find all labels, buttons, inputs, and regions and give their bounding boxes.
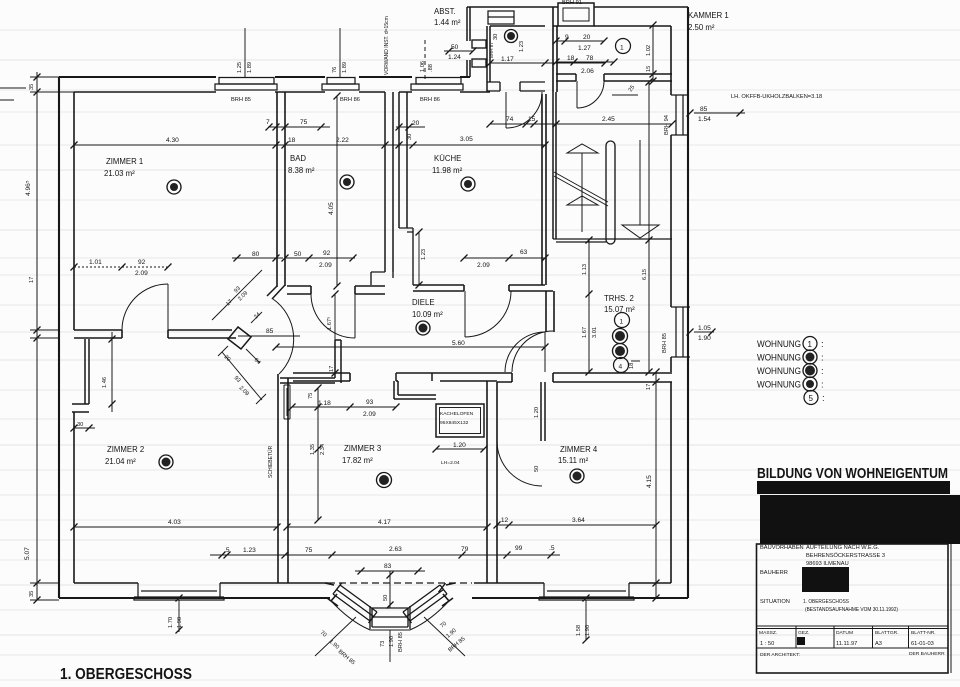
svg-text:1.70: 1.70 xyxy=(168,617,174,628)
wall BAD chamfer to corner xyxy=(267,285,285,299)
wall bottom outer right of bay xyxy=(472,597,688,599)
ticks WC y63 xyxy=(487,60,494,67)
svg-text:75: 75 xyxy=(300,119,308,126)
Z4 west stub wall xyxy=(541,382,545,441)
svg-text:5.60: 5.60 xyxy=(452,340,465,347)
diag dim 20 93 2.09 lower xyxy=(218,346,266,404)
dim 1.35 2.34 rot xyxy=(317,388,319,520)
window right BRH85 lower xyxy=(671,307,690,357)
svg-text:1.90: 1.90 xyxy=(585,625,591,636)
svg-text:93: 93 xyxy=(233,286,242,295)
corner door arc DIELE xyxy=(273,299,294,374)
dim 18 xyxy=(631,360,640,362)
svg-text:30: 30 xyxy=(77,422,83,428)
ticks Z4 window x586 xyxy=(583,595,590,602)
svg-text:BRH 86: BRH 86 xyxy=(340,97,360,103)
door Z4 arc xyxy=(497,441,542,486)
dim row 5 1.23 xyxy=(210,554,560,556)
dim 12 3.64 xyxy=(497,524,656,526)
dim 1.05/1.90 xyxy=(694,331,714,333)
svg-text:1.05: 1.05 xyxy=(698,325,711,332)
svg-text:KACHELOFEN: KACHELOFEN xyxy=(440,411,474,417)
wall top outer segments xyxy=(59,76,470,78)
svg-text:3.01: 3.01 xyxy=(592,327,598,338)
dim 18 78 2.06 xyxy=(556,61,614,63)
svg-text:1.23: 1.23 xyxy=(421,249,427,260)
door KUECHE arc xyxy=(465,291,511,337)
ticks right window dims xyxy=(687,329,694,336)
WC left wall xyxy=(487,26,490,92)
wall WC/KAMMER xyxy=(553,7,557,92)
dim 30 Z2 xyxy=(74,427,95,429)
svg-text:25: 25 xyxy=(628,85,637,94)
dim 1.23 KUECHE rot xyxy=(418,232,420,285)
svg-text:BRH 85: BRH 85 xyxy=(337,649,356,666)
svg-text:DATUM: DATUM xyxy=(836,630,853,636)
svg-text:11.98 m²: 11.98 m² xyxy=(432,166,463,175)
dim 85/1.54 right window xyxy=(694,112,745,114)
door Z1 arc xyxy=(122,284,168,330)
stair up arrowhead2 xyxy=(567,196,598,205)
extension top wall inner xyxy=(490,25,671,27)
WC scribble xyxy=(505,30,518,43)
window W1 ZIMMER1 sill xyxy=(219,78,274,85)
scribble DIELE xyxy=(416,321,430,335)
svg-text:BRH 85: BRH 85 xyxy=(398,632,404,652)
svg-text:LH=2.04: LH=2.04 xyxy=(441,460,460,466)
svg-text:1.90: 1.90 xyxy=(445,628,457,640)
scribble Z3 xyxy=(377,473,392,488)
door BAD arc xyxy=(311,294,355,338)
svg-text:1.90: 1.90 xyxy=(698,335,711,342)
svg-text:ZIMMER 3: ZIMMER 3 xyxy=(344,444,381,453)
svg-text:95X845X132: 95X845X132 xyxy=(440,420,469,426)
svg-text:1.20: 1.20 xyxy=(534,407,540,418)
window W3 frame xyxy=(411,84,463,90)
svg-text:2.45: 2.45 xyxy=(602,116,615,123)
dim 80 corner xyxy=(232,257,283,259)
svg-text:A3: A3 xyxy=(875,641,882,647)
ticks 5.60 y347 xyxy=(273,344,280,351)
svg-text::: : xyxy=(822,393,825,404)
svg-text:93: 93 xyxy=(366,399,374,406)
WC scribble fill xyxy=(507,32,515,40)
svg-text:15: 15 xyxy=(528,116,536,123)
svg-text:83: 83 xyxy=(384,563,392,570)
svg-text:BLATTGR.: BLATTGR. xyxy=(875,630,899,636)
svg-text:50: 50 xyxy=(383,595,389,601)
svg-text:17.82 m²: 17.82 m² xyxy=(342,456,373,465)
dim 4.17 xyxy=(287,526,487,528)
wall Z2 top stub xyxy=(72,339,89,412)
wall BAD bottom xyxy=(287,286,385,294)
ticks bay 50 x390 xyxy=(387,572,394,579)
vorwand bottom jog xyxy=(371,228,413,285)
svg-text:1. OBERGESCHOSS: 1. OBERGESCHOSS xyxy=(803,599,849,605)
KACHELOFEN dim 1.20 xyxy=(436,448,484,450)
svg-text:4: 4 xyxy=(619,364,623,371)
svg-text:1.01: 1.01 xyxy=(89,259,102,266)
stair cut line xyxy=(554,172,608,206)
svg-text:2.09: 2.09 xyxy=(477,262,490,269)
svg-text:35: 35 xyxy=(29,591,35,597)
dim 4.05 BAD rot xyxy=(336,96,338,286)
stair down arrowhead xyxy=(622,225,659,238)
svg-text:BAD: BAD xyxy=(290,154,306,163)
svg-text:70: 70 xyxy=(439,621,448,630)
bay dashed line xyxy=(328,582,472,584)
svg-text:1.23: 1.23 xyxy=(519,41,525,52)
wall bottom inner right of bay xyxy=(474,582,671,584)
svg-text:4.30: 4.30 xyxy=(166,137,179,144)
redaction bauherr xyxy=(802,567,849,592)
ticks Z2 window x179 xyxy=(176,595,183,602)
svg-text:1.54: 1.54 xyxy=(698,116,711,123)
svg-text:BRH 85: BRH 85 xyxy=(231,97,251,103)
svg-text:TRHS. 2: TRHS. 2 xyxy=(604,294,634,303)
svg-text:1 : 50: 1 : 50 xyxy=(760,641,774,647)
stair down line xyxy=(639,140,641,225)
svg-text:BAUHERR: BAUHERR xyxy=(760,570,788,576)
ticks KAMMER y41 xyxy=(553,38,560,45)
window W3 KUECHE sill xyxy=(416,78,461,85)
ticks 4.05 x337 xyxy=(334,93,341,100)
svg-text:1.23: 1.23 xyxy=(243,547,256,554)
placeholder2 xyxy=(60,337,960,684)
dim 5.60 DIELE xyxy=(276,346,545,348)
svg-text:WOHNUNG: WOHNUNG xyxy=(757,339,801,350)
table outer border xyxy=(757,544,949,673)
TRHS scribble 3 xyxy=(613,344,628,359)
svg-text:1.17: 1.17 xyxy=(501,56,514,63)
svg-text:61-01-03: 61-01-03 xyxy=(911,641,934,647)
svg-text:ZIMMER 2: ZIMMER 2 xyxy=(107,445,144,454)
svg-text:1.46: 1.46 xyxy=(102,377,108,388)
window W1 frame xyxy=(215,84,277,90)
WC niche box xyxy=(488,11,514,24)
ticks x656 right xyxy=(653,369,660,376)
svg-text:3.05: 3.05 xyxy=(460,136,473,143)
bay left wall wedge xyxy=(325,583,338,606)
ticks BAD door y258 xyxy=(282,255,289,262)
scribble Z2 xyxy=(159,455,173,469)
svg-text:18: 18 xyxy=(567,55,575,62)
bay window center xyxy=(370,606,410,629)
ticks x649 xyxy=(646,79,653,86)
ticks Z3 top y407 xyxy=(289,404,296,411)
scribble KUECHE xyxy=(461,177,475,191)
WC door leaf xyxy=(505,92,507,128)
svg-text:30: 30 xyxy=(407,134,413,140)
svg-text:1: 1 xyxy=(808,340,813,349)
svg-text:50: 50 xyxy=(534,466,540,472)
svg-text:-: - xyxy=(799,545,801,551)
svg-text:99: 99 xyxy=(515,545,523,552)
svg-text:93: 93 xyxy=(233,375,242,384)
svg-text:74: 74 xyxy=(506,116,514,123)
wall left inner upper xyxy=(73,92,75,330)
bay left leader xyxy=(315,617,356,656)
dim vertical 4.15 right xyxy=(655,372,657,598)
dim 2.45 row xyxy=(490,123,672,125)
dim 1.58/1.90 Z4 window rot xyxy=(585,600,587,640)
top margin window dims W2 xyxy=(339,28,341,77)
wall DIELE right / TRHS xyxy=(546,291,554,332)
svg-text:1.89: 1.89 xyxy=(342,62,348,73)
ticks top dim row y145 xyxy=(71,142,78,149)
door TRHS leaf xyxy=(544,332,546,372)
svg-text:BILDUNG VON WOHNEIGENTUM: BILDUNG VON WOHNEIGENTUM xyxy=(757,466,948,482)
wall KUECHE bottom xyxy=(413,285,553,291)
svg-text:BRH 91: BRH 91 xyxy=(562,0,582,6)
dim 9 20 1.27 xyxy=(556,40,604,42)
chimney inner xyxy=(563,8,589,21)
svg-text:.5: .5 xyxy=(549,545,555,552)
svg-text:5: 5 xyxy=(809,394,814,403)
svg-text:1: 1 xyxy=(620,45,624,52)
svg-text:92: 92 xyxy=(138,259,146,266)
svg-text:64: 64 xyxy=(253,357,262,366)
left dim line xyxy=(36,72,38,600)
TRHS scribble 2 xyxy=(613,329,628,344)
svg-text:ZIMMER 1: ZIMMER 1 xyxy=(106,157,143,166)
svg-text:70: 70 xyxy=(319,630,328,639)
svg-text:1.25: 1.25 xyxy=(237,62,243,73)
svg-text:20: 20 xyxy=(412,120,420,127)
svg-text:1.58: 1.58 xyxy=(576,625,582,636)
placeholder for more xyxy=(72,82,714,666)
ticks 4.17 y527 xyxy=(284,524,291,531)
scribble Z1 xyxy=(167,180,181,194)
door Z1 leaf xyxy=(167,284,169,330)
wall right inner segments xyxy=(670,26,672,583)
ticks dotted y267 xyxy=(71,264,78,271)
bay right wall wedge xyxy=(442,583,455,606)
wall right outer xyxy=(687,7,689,598)
svg-text:VORWAND INST. d=15cm: VORWAND INST. d=15cm xyxy=(384,16,390,75)
ticks 20 y127 xyxy=(396,124,403,131)
ticks 1.23 x419 xyxy=(416,229,423,236)
svg-text::: : xyxy=(821,339,824,350)
svg-text:80: 80 xyxy=(252,251,260,258)
window ZIMMER4 bottom sill xyxy=(539,583,634,600)
svg-text::: : xyxy=(821,353,824,364)
svg-text:76: 76 xyxy=(332,67,338,73)
table right double line xyxy=(950,544,952,673)
svg-text:50: 50 xyxy=(294,251,302,258)
svg-text:1.90: 1.90 xyxy=(389,636,395,647)
dim 4.03 xyxy=(74,526,277,528)
svg-text:7: 7 xyxy=(266,119,270,126)
svg-text:21.03 m²: 21.03 m² xyxy=(104,169,135,178)
svg-text:AUFTEILUNG NACH W.E.G.: AUFTEILUNG NACH W.E.G. xyxy=(806,545,880,551)
svg-text:(BESTANDSAUFNAHME VOM 30.11.19: (BESTANDSAUFNAHME VOM 30.11.1992) xyxy=(805,607,898,613)
dim row 4.30 2.22 3.05 xyxy=(74,144,545,146)
left margin corner marks xyxy=(0,88,26,100)
dim 1.02 15 vertical xyxy=(652,25,654,81)
svg-text:2.09: 2.09 xyxy=(363,411,376,418)
svg-text:98693 ILMENAU: 98693 ILMENAU xyxy=(806,561,849,567)
svg-text:18: 18 xyxy=(288,137,296,144)
svg-text:2.63: 2.63 xyxy=(389,546,402,553)
TRHS circled 1 xyxy=(615,313,630,328)
bay center labels rot xyxy=(389,630,391,662)
wall left inner lower xyxy=(73,412,75,583)
redaction bar 1 xyxy=(757,481,950,494)
svg-text:75: 75 xyxy=(308,393,314,399)
scribble Z4 xyxy=(570,469,584,483)
svg-text:SCHIEBETÜR: SCHIEBETÜR xyxy=(267,445,274,478)
ticks x589 xyxy=(586,237,593,244)
svg-text:17: 17 xyxy=(329,366,335,372)
window right BRH94 xyxy=(671,95,688,135)
dim 1.46 rot xyxy=(111,332,113,412)
ticks left chain x37 xyxy=(34,74,41,81)
svg-text:6.15: 6.15 xyxy=(642,269,648,280)
svg-text:2.09: 2.09 xyxy=(319,262,332,269)
wall Z3 top xyxy=(280,340,341,383)
svg-text:BEHRENSÖCKERSTRASSE 3: BEHRENSÖCKERSTRASSE 3 xyxy=(806,552,885,559)
svg-text:DER ARCHITEKT:: DER ARCHITEKT: xyxy=(760,652,800,658)
svg-text:LH. OKFFB-UKHOLZBALKEN=3.18: LH. OKFFB-UKHOLZBALKEN=3.18 xyxy=(731,94,822,100)
svg-text::: : xyxy=(821,380,824,391)
svg-text:73: 73 xyxy=(380,641,386,647)
svg-text:2.50 m²: 2.50 m² xyxy=(688,23,715,32)
svg-text:1. OBERGESCHOSS: 1. OBERGESCHOSS xyxy=(60,666,192,683)
wall TRHS bottom / Z4 top xyxy=(497,373,672,382)
svg-text:1.67⁵: 1.67⁵ xyxy=(326,316,333,330)
wall KUECHE right xyxy=(542,94,546,285)
stair capsule rail xyxy=(606,141,615,244)
ticks 80 y258 xyxy=(234,255,241,262)
ticks KAMMER y62 xyxy=(553,59,560,66)
svg-text:21.04 m²: 21.04 m² xyxy=(105,457,136,466)
svg-text:4.15: 4.15 xyxy=(646,475,653,488)
svg-text:75: 75 xyxy=(305,547,313,554)
svg-text:2.09: 2.09 xyxy=(238,385,250,397)
KACHELOFEN box xyxy=(436,404,484,437)
corner diamond jamb xyxy=(228,327,251,349)
ticks 3.64 y525 xyxy=(494,522,501,529)
KAMMER circled 1 xyxy=(616,39,631,54)
svg-text:BAUVORHABEN: BAUVORHABEN xyxy=(760,545,804,551)
svg-text:1.20: 1.20 xyxy=(453,442,466,449)
door KUECHE leaf xyxy=(464,291,466,337)
svg-text:3.64: 3.64 xyxy=(572,517,585,524)
bay right leader xyxy=(424,617,465,656)
dim vertical 1.13 xyxy=(588,239,590,372)
ticks 63 y258 xyxy=(461,255,468,262)
wall BAD/KUECHE vorwand xyxy=(385,92,407,272)
svg-text:DER BAUHERR: DER BAUHERR xyxy=(909,651,945,657)
stair mid line2 xyxy=(581,196,583,205)
WC door arc xyxy=(506,92,542,128)
svg-text:17: 17 xyxy=(29,277,35,283)
dim 7 75 above BAD xyxy=(268,126,330,128)
bay sill curve xyxy=(331,601,449,630)
dim 1.17 WC xyxy=(490,62,605,64)
dim 85 corner door xyxy=(238,335,300,337)
ticks 7 75 y127 xyxy=(266,124,273,131)
svg-text:1.89: 1.89 xyxy=(247,62,253,73)
wohnung row5 xyxy=(804,391,818,405)
svg-text:DIELE: DIELE xyxy=(412,298,435,307)
chimney xyxy=(558,3,594,26)
svg-text:2.09: 2.09 xyxy=(135,270,148,277)
svg-text:2.06: 2.06 xyxy=(581,68,594,75)
svg-text:ABST.: ABST. xyxy=(434,7,456,16)
dim 1.70/1.90 Z2 window rot xyxy=(178,600,180,632)
dim line Z3 top 1.18 93 2.09 xyxy=(292,406,396,408)
extension top wall outer xyxy=(467,6,688,8)
svg-text:KAMMER 1: KAMMER 1 xyxy=(688,11,729,20)
svg-text:4.05: 4.05 xyxy=(328,202,335,215)
bay dim 50 rot xyxy=(389,571,391,608)
svg-text:1.24: 1.24 xyxy=(448,54,461,61)
svg-text:BLATT-NR.: BLATT-NR. xyxy=(911,630,936,636)
svg-text:1.90: 1.90 xyxy=(328,639,340,651)
door BAD leaf xyxy=(354,294,356,338)
stair left wall xyxy=(553,92,556,239)
stair up arrow line xyxy=(581,153,583,232)
svg-text:BRH 94: BRH 94 xyxy=(664,115,670,135)
wall Z2/Z3 xyxy=(278,374,288,583)
svg-text:1.02: 1.02 xyxy=(646,45,652,56)
svg-text:WOHNUNG: WOHNUNG xyxy=(757,353,801,364)
svg-text:1.67: 1.67 xyxy=(582,327,588,338)
WC bottom wall pieces xyxy=(487,82,545,91)
ticks 30 y428 xyxy=(71,425,78,432)
svg-text:1.35: 1.35 xyxy=(310,444,316,455)
window ZIMMER2 bottom sill xyxy=(134,583,224,600)
ticks 83 y571 xyxy=(358,568,365,575)
svg-text:BRH 86: BRH 86 xyxy=(420,97,440,103)
ticks bottom row y555 xyxy=(219,552,226,559)
dim vertical 6.15 xyxy=(648,82,650,372)
wall Z3/Z4 partition xyxy=(487,381,497,583)
dim 63 xyxy=(464,257,546,259)
ticks ABST y51 xyxy=(446,48,453,55)
svg-text:1.06: 1.06 xyxy=(420,61,426,72)
wall top inner segments xyxy=(74,91,490,93)
svg-text:ZIMMER 4: ZIMMER 4 xyxy=(560,445,598,454)
KAMMER door arc xyxy=(577,81,604,108)
KAMMER bottom wall xyxy=(556,74,672,81)
left dim extension lines xyxy=(30,77,74,600)
ticks x653 vertical xyxy=(650,22,657,29)
svg-text:4.17: 4.17 xyxy=(378,519,391,526)
svg-text:1.27: 1.27 xyxy=(578,45,591,52)
svg-text:SITUATION: SITUATION xyxy=(760,599,790,605)
top margin window dims W1 xyxy=(244,28,246,77)
ticks y124 xyxy=(487,121,494,128)
svg-text:2.22: 2.22 xyxy=(336,137,349,144)
svg-text:BRH 87: BRH 87 xyxy=(489,42,494,58)
svg-text:30: 30 xyxy=(493,34,499,40)
redaction bar 2 xyxy=(760,495,960,544)
dim 20 KUECHE xyxy=(396,126,425,128)
svg-text:20: 20 xyxy=(583,34,591,41)
svg-text:.88: .88 xyxy=(428,64,434,72)
svg-text:92: 92 xyxy=(323,250,331,257)
svg-text:35: 35 xyxy=(29,84,35,90)
bay window right angled xyxy=(403,583,447,623)
dim 50/1.24 ABST door xyxy=(444,50,473,52)
diag dim 93/2.09 upper xyxy=(212,270,262,320)
stair landing edge xyxy=(553,239,672,242)
svg-text:8.38 m²: 8.38 m² xyxy=(288,166,315,175)
svg-text:78: 78 xyxy=(586,55,594,62)
